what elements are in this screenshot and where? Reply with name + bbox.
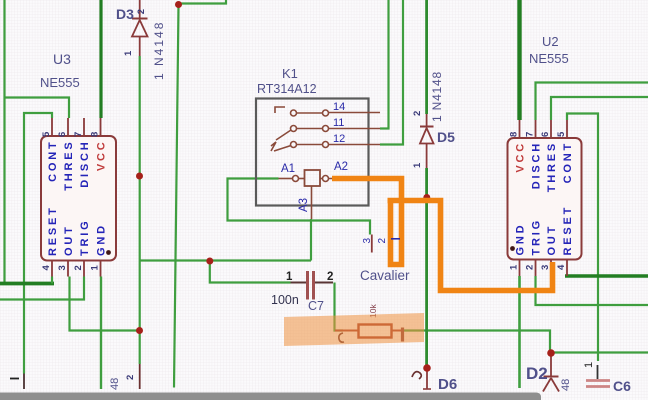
diode D6 top pin xyxy=(412,371,431,389)
svg-text:D6: D6 xyxy=(438,376,457,393)
U3 pin 6 stub xyxy=(67,118,69,136)
wire U3 pin4 stub link xyxy=(51,277,53,284)
svg-text:OUT: OUT xyxy=(63,224,75,256)
wire U2 RESET thick xyxy=(565,274,648,277)
wire U3 pin5 xyxy=(24,113,52,374)
junction y260 xyxy=(206,258,213,265)
U2 pin 2 stub xyxy=(535,260,537,277)
svg-text:48: 48 xyxy=(560,379,572,391)
wire U3 GND down xyxy=(100,277,102,390)
U2 pin 6 stub xyxy=(550,120,552,138)
relay contact row pin 14 xyxy=(275,107,380,116)
wire U2 VCC thick xyxy=(517,0,521,120)
svg-text:1: 1 xyxy=(123,50,134,56)
wire C7 branch xyxy=(210,261,291,283)
U3 pin 5 stub xyxy=(51,118,53,136)
svg-text:OUT: OUT xyxy=(546,224,558,256)
svg-text:7: 7 xyxy=(73,132,84,137)
svg-text:2: 2 xyxy=(412,111,423,116)
svg-text:6: 6 xyxy=(57,132,68,137)
svg-text:K1: K1 xyxy=(282,66,298,81)
svg-text:D3: D3 xyxy=(116,6,134,22)
junction top xyxy=(175,1,182,8)
svg-text:2: 2 xyxy=(327,271,333,283)
wire D5 net upper xyxy=(425,0,428,114)
svg-text:3: 3 xyxy=(57,265,68,270)
svg-text:7: 7 xyxy=(525,132,536,137)
wire D3 net vertical xyxy=(139,56,141,364)
U2 GND dot xyxy=(510,246,515,251)
U2 pin 5 stub xyxy=(566,120,568,138)
svg-text:RT314A12: RT314A12 xyxy=(257,82,317,96)
svg-text:NE555: NE555 xyxy=(40,75,80,90)
wire U2 GND down xyxy=(518,276,521,388)
svg-text:2: 2 xyxy=(136,9,147,14)
wire U2 THRES xyxy=(551,97,648,120)
svg-text:U2: U2 xyxy=(542,34,559,49)
diode D5 xyxy=(412,111,434,168)
svg-text:5: 5 xyxy=(556,131,567,137)
bottom partial diode pin x139.7 xyxy=(125,364,140,389)
wire relay pin11 xyxy=(380,0,389,129)
svg-text:RESET: RESET xyxy=(47,205,59,256)
svg-text:12: 12 xyxy=(333,133,345,145)
svg-text:TRIG: TRIG xyxy=(79,219,91,256)
svg-text:2: 2 xyxy=(73,265,84,270)
wire U2 TRIG xyxy=(536,276,648,305)
U3 pin 4 stub xyxy=(51,261,53,277)
wire C7 pin2 down xyxy=(335,283,344,331)
U2 pin 3 stub xyxy=(550,260,552,277)
svg-text:VCC: VCC xyxy=(515,141,527,173)
svg-text:48: 48 xyxy=(109,378,121,390)
wire U2 DISCH xyxy=(536,83,648,121)
svg-text:RESET: RESET xyxy=(562,205,574,256)
svg-text:6: 6 xyxy=(540,132,551,137)
svg-text:3: 3 xyxy=(540,265,551,270)
junction D2 xyxy=(547,349,555,357)
svg-text:Cavalier: Cavalier xyxy=(360,268,410,283)
junction D3 net mid xyxy=(136,173,143,180)
selection highlight on resistor xyxy=(284,313,424,346)
wire U3 TRIG xyxy=(0,277,84,300)
diode D3 xyxy=(123,0,148,56)
wire D2 right xyxy=(551,351,648,353)
svg-text:1: 1 xyxy=(90,265,101,271)
IC U3 NE555 xyxy=(41,118,116,277)
wire slanted mid vertical xyxy=(174,6,179,388)
U2 pin 8 stub xyxy=(519,120,521,138)
wire relay A3 down xyxy=(310,219,312,261)
scrollbar bottom xyxy=(0,393,541,400)
wire left-edge vertical xyxy=(3,0,5,284)
svg-text:8: 8 xyxy=(509,132,520,137)
junction D5 net (under orange) xyxy=(423,194,430,201)
U3 pin 8 stub xyxy=(100,118,102,136)
bottom partial diode pin x24 xyxy=(10,374,24,390)
jumper Cavalier pin1 number dash xyxy=(391,238,400,240)
svg-text:14: 14 xyxy=(333,101,345,113)
junction D6 xyxy=(423,364,431,372)
svg-text:1: 1 xyxy=(412,162,423,168)
svg-text:1 N4148: 1 N4148 xyxy=(430,71,444,122)
relay K1 box xyxy=(256,99,369,206)
svg-text:A2: A2 xyxy=(334,161,348,173)
diode D2 xyxy=(543,356,559,392)
U3 pin 2 stub xyxy=(83,261,85,277)
U3 pin 7 stub xyxy=(83,118,85,136)
svg-text:4: 4 xyxy=(41,265,52,271)
wire D5 net lower xyxy=(425,168,428,368)
svg-text:DISCH: DISCH xyxy=(79,140,91,188)
svg-text:D2: D2 xyxy=(526,364,548,383)
svg-text:A3: A3 xyxy=(298,198,310,212)
svg-text:VCC: VCC xyxy=(96,140,108,172)
wire relay A1 net xyxy=(228,179,371,235)
svg-text:CONT: CONT xyxy=(562,141,574,183)
svg-text:C6: C6 xyxy=(613,378,631,394)
wire resistor to D2 xyxy=(403,331,551,353)
capacitor C7 xyxy=(286,271,333,300)
svg-text:11: 11 xyxy=(333,117,344,129)
svg-text:DISCH: DISCH xyxy=(531,141,543,189)
svg-text:GND: GND xyxy=(515,223,527,256)
U2 pin 4 stub xyxy=(566,260,568,277)
U2 pin 7 stub xyxy=(535,120,537,138)
svg-text:U3: U3 xyxy=(53,51,71,67)
svg-text:2: 2 xyxy=(377,238,388,244)
svg-text:TRIG: TRIG xyxy=(531,218,543,255)
svg-text:1: 1 xyxy=(286,271,293,283)
wire U3 RESET thick xyxy=(0,282,54,286)
svg-text:4: 4 xyxy=(556,264,567,270)
svg-text:1: 1 xyxy=(509,264,520,270)
relay contact row pin 12 xyxy=(271,142,380,152)
junction OUT net xyxy=(136,327,143,334)
IC U2 NE555 xyxy=(508,120,582,276)
wire U3 pin6 CONT-net horizontal xyxy=(5,98,70,119)
svg-text:2: 2 xyxy=(525,265,536,270)
orange route wire xyxy=(332,179,553,291)
svg-text:1: 1 xyxy=(583,362,595,368)
U2 pin 1 stub xyxy=(519,260,521,277)
wire U3 VCC thick xyxy=(99,0,102,118)
svg-text:THRES: THRES xyxy=(546,141,558,192)
relay contact row pin 11 xyxy=(276,126,380,141)
svg-text:2: 2 xyxy=(125,375,136,380)
wire y260 horizontal xyxy=(140,259,312,261)
wire U2 CONT to C6 xyxy=(567,114,598,362)
svg-text:THRES: THRES xyxy=(63,140,75,191)
relay coil A1 A2 A3 xyxy=(279,170,346,219)
wire top junction horizontal xyxy=(179,0,227,4)
svg-text:100n: 100n xyxy=(271,293,299,307)
U3 pin 3 stub xyxy=(67,261,69,277)
svg-text:1 N4148: 1 N4148 xyxy=(152,21,166,80)
resistor (highlighted) xyxy=(335,304,403,343)
U3 GND dot xyxy=(106,250,111,255)
jumper Cavalier pins xyxy=(362,235,388,253)
svg-text:8: 8 xyxy=(90,132,101,137)
svg-text:C7: C7 xyxy=(308,299,324,313)
svg-text:GND: GND xyxy=(96,223,108,256)
U3 pin 1 stub xyxy=(100,261,102,277)
svg-text:CONT: CONT xyxy=(47,140,59,182)
capacitor C6 xyxy=(583,362,610,387)
wire relay pin12 xyxy=(380,0,403,145)
svg-text:3: 3 xyxy=(362,238,373,244)
wire U3 OUT xyxy=(70,277,140,331)
svg-text:NE555: NE555 xyxy=(529,51,569,66)
svg-text:D5: D5 xyxy=(437,129,455,145)
svg-text:A1: A1 xyxy=(281,163,295,175)
svg-text:5: 5 xyxy=(41,131,52,137)
